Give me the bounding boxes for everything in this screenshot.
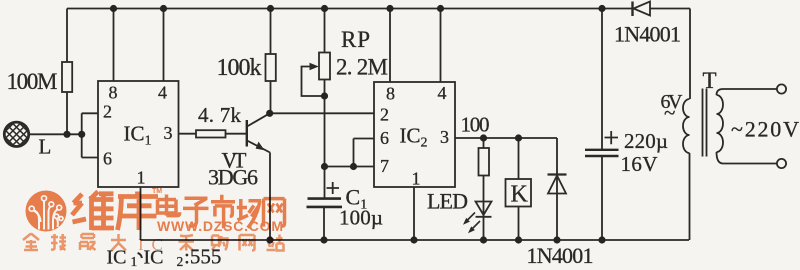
svg-text:8: 8: [109, 83, 118, 103]
svg-text:6: 6: [380, 128, 389, 148]
svg-text:TM: TM: [152, 188, 162, 195]
svg-text:2. 2M: 2. 2M: [336, 55, 388, 80]
svg-text:IC1: IC1: [124, 122, 152, 149]
svg-text:8: 8: [386, 84, 395, 104]
svg-text:1: 1: [131, 254, 138, 269]
svg-text:K: K: [511, 182, 529, 208]
svg-text:1: 1: [412, 169, 421, 189]
svg-text:RP: RP: [341, 27, 370, 52]
svg-text:100µ: 100µ: [339, 206, 383, 230]
svg-text:IC: IC: [107, 247, 127, 269]
svg-text:100M: 100M: [7, 69, 58, 94]
svg-text:I: I: [138, 235, 144, 254]
svg-text:WWW.DZSC.COM: WWW.DZSC.COM: [157, 218, 283, 234]
svg-text:100k: 100k: [217, 55, 262, 81]
svg-text:4: 4: [158, 83, 167, 103]
svg-text:T: T: [703, 68, 717, 93]
svg-text:6: 6: [103, 149, 112, 169]
svg-text:2: 2: [380, 105, 389, 125]
svg-text:4. 7k: 4. 7k: [198, 103, 242, 127]
svg-text:100: 100: [461, 113, 490, 137]
svg-text:3: 3: [440, 127, 449, 147]
svg-text:2: 2: [103, 102, 112, 122]
svg-text:220µ: 220µ: [624, 129, 668, 153]
svg-text:1N4001: 1N4001: [614, 22, 681, 47]
svg-text:LED: LED: [427, 189, 468, 214]
svg-text:3: 3: [164, 123, 173, 143]
svg-text:C: C: [152, 235, 163, 254]
svg-text:7: 7: [380, 156, 389, 176]
svg-text:1: 1: [137, 168, 146, 188]
svg-text:~: ~: [664, 101, 675, 125]
svg-text:3DG6: 3DG6: [208, 165, 258, 190]
svg-text:16V: 16V: [621, 152, 658, 176]
svg-text:1N4001: 1N4001: [527, 243, 594, 268]
svg-text:IC2: IC2: [400, 124, 428, 151]
svg-text:~220V: ~220V: [731, 117, 799, 142]
svg-text:4: 4: [438, 83, 447, 103]
svg-text:2: 2: [177, 254, 184, 269]
svg-text:L: L: [39, 135, 52, 159]
